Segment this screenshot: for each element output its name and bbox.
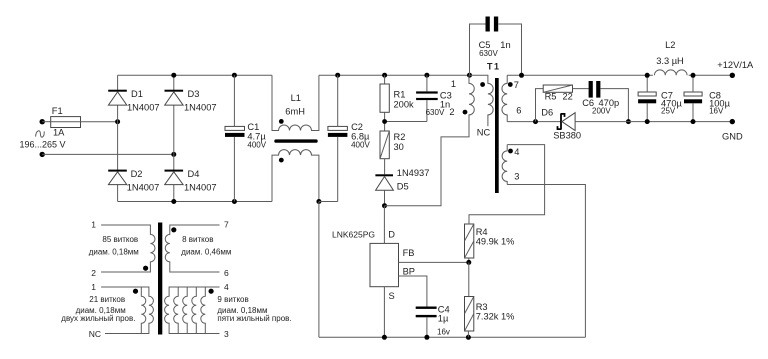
resistor R2 30 (fusible) xyxy=(380,131,405,174)
AC input terminal bottom xyxy=(40,152,45,157)
wire: secondary top line pin 7 to output xyxy=(507,74,732,76)
diode D6 SB380 schottky xyxy=(541,108,581,141)
transformer T1 auxiliary winding (NC) xyxy=(470,75,494,137)
svg-text:9 витков: 9 витков xyxy=(217,295,248,304)
svg-text:1N4007: 1N4007 xyxy=(184,103,217,113)
diode D4 1N4007 xyxy=(165,169,217,193)
svg-text:D1: D1 xyxy=(131,89,143,99)
node: bottom rail C1 xyxy=(232,199,237,204)
svg-text:NC: NC xyxy=(477,128,491,138)
svg-text:диам. 0,18мм: диам. 0,18мм xyxy=(89,248,139,257)
svg-text:пяти жильный пров.: пяти жильный пров. xyxy=(217,314,291,323)
node: top rail D3 xyxy=(171,73,176,78)
svg-text:6: 6 xyxy=(224,268,229,278)
svg-text:400V: 400V xyxy=(247,140,266,149)
svg-text:8 витков: 8 витков xyxy=(182,235,213,244)
node: C8 bottom xyxy=(691,119,696,124)
capacitor C1 4.7u 400V xyxy=(225,75,267,201)
wire: L1 bottom junction to C2 bottom xyxy=(319,201,338,203)
fuse F1 xyxy=(51,106,81,138)
label: 196...265 V xyxy=(20,140,66,150)
svg-text:R3: R3 xyxy=(476,302,488,312)
resistor R1 200k xyxy=(380,75,414,131)
AC input terminal top xyxy=(40,119,45,124)
transformer T1 label xyxy=(487,62,501,72)
svg-text:+12V/1A: +12V/1A xyxy=(717,60,754,70)
node: L2 in / C7 top xyxy=(645,73,650,78)
svg-text:диам. 0,46мм: диам. 0,46мм xyxy=(181,248,231,257)
output terminal +12V xyxy=(717,60,754,78)
svg-text:1N4007: 1N4007 xyxy=(127,103,160,113)
svg-text:SB380: SB380 xyxy=(553,131,581,141)
node: L2 out / C8 top xyxy=(691,73,696,78)
svg-text:L2: L2 xyxy=(665,40,675,50)
wire: AC top terminal to fuse xyxy=(42,121,51,123)
svg-text:L1: L1 xyxy=(291,93,301,103)
svg-text:22: 22 xyxy=(563,92,573,102)
node: C7 bottom xyxy=(645,119,650,124)
svg-text:D4: D4 xyxy=(188,169,200,179)
svg-text:D6: D6 xyxy=(541,108,553,118)
wire: fuse to bridge node xyxy=(81,121,118,123)
svg-text:двух жильный пров.: двух жильный пров. xyxy=(61,314,135,323)
svg-text:NC: NC xyxy=(89,329,101,339)
IC U1 LNK625PG xyxy=(332,206,415,301)
diode D3 1N4007 xyxy=(165,89,217,112)
node: AC bottom/bridge junction xyxy=(171,152,176,157)
svg-text:FB: FB xyxy=(403,248,415,258)
svg-text:1: 1 xyxy=(451,79,456,89)
capacitor C3 1n 630V xyxy=(385,75,452,121)
svg-text:1µ: 1µ xyxy=(438,314,449,324)
wire: bridge right vertical xyxy=(173,75,175,201)
svg-text:1A: 1A xyxy=(53,128,65,138)
svg-text:7: 7 xyxy=(224,220,229,230)
node: source rail C4 xyxy=(424,335,429,340)
node: FB divider junction xyxy=(466,260,471,265)
svg-text:D2: D2 xyxy=(131,169,143,179)
svg-text:3: 3 xyxy=(514,172,519,182)
source rail (primary ground) xyxy=(319,336,586,338)
svg-text:1: 1 xyxy=(91,282,96,292)
svg-text:LNK625PG: LNK625PG xyxy=(332,230,375,240)
svg-text:GND: GND xyxy=(722,132,743,142)
diode D2 1N4007 xyxy=(108,169,159,193)
wire: bridge left vertical xyxy=(117,75,119,201)
node: D5/clamp/drain junction xyxy=(382,203,387,208)
svg-text:7: 7 xyxy=(514,80,519,90)
wire: AC bottom to bridge node xyxy=(42,153,174,155)
wire: top rail L1 to T1 xyxy=(319,74,470,76)
svg-text:R2: R2 xyxy=(394,132,406,142)
capacitor C7 470u 25V xyxy=(638,75,682,121)
wire: D6 to output gnd line xyxy=(575,121,732,123)
svg-text:D: D xyxy=(388,230,395,240)
transformer T1 bias winding pins 4-3 xyxy=(502,145,519,185)
detail winding 85 turns pins 1-2 xyxy=(89,220,155,279)
svg-text:2: 2 xyxy=(91,268,96,278)
svg-text:4: 4 xyxy=(224,282,229,292)
svg-text:85 витков: 85 витков xyxy=(102,235,138,244)
svg-text:T1: T1 xyxy=(487,62,501,72)
svg-text:6mH: 6mH xyxy=(285,107,305,117)
svg-text:4: 4 xyxy=(514,147,519,157)
svg-text:BP: BP xyxy=(403,266,415,276)
svg-text:F1: F1 xyxy=(52,106,63,116)
node: top rail C2 xyxy=(335,73,340,78)
wire: pin 4 to R4 xyxy=(469,145,545,224)
svg-text:630V: 630V xyxy=(479,49,498,58)
capacitor C6 470p 200V xyxy=(582,81,628,122)
resistor R5 22 (fusible) xyxy=(536,85,589,122)
svg-text:1N4007: 1N4007 xyxy=(127,183,160,193)
svg-text:D3: D3 xyxy=(188,89,200,99)
node: top rail C3 xyxy=(424,73,429,78)
svg-text:630V: 630V xyxy=(426,108,445,117)
wire: FB pin to divider xyxy=(399,261,469,263)
node: source rail R3 xyxy=(466,335,471,340)
svg-text:1n: 1n xyxy=(500,40,510,50)
wire: secondary bottom line pin 6 to D6 xyxy=(507,121,561,123)
node: C5 right on pin 7 line xyxy=(519,73,524,78)
svg-text:21 витков: 21 витков xyxy=(89,295,125,304)
svg-text:7.32k 1%: 7.32k 1% xyxy=(476,311,515,321)
inductor L2 3.3uH xyxy=(653,40,689,76)
resistor R3 7.32k 1% xyxy=(465,262,515,337)
node: C5 left junction on pin1 line xyxy=(467,73,472,78)
node: source rail S xyxy=(382,335,387,340)
resistor R4 49.9k 1% xyxy=(465,215,515,263)
svg-text:3: 3 xyxy=(224,329,229,339)
svg-text:1N4007: 1N4007 xyxy=(184,183,217,193)
detail core bar xyxy=(158,223,162,335)
svg-text:16V: 16V xyxy=(709,107,724,116)
detail winding 9 turns pins 4-3 (five strands) xyxy=(165,282,292,339)
svg-text:200V: 200V xyxy=(592,106,611,115)
wire: L1 bottom junction down to source rail xyxy=(318,202,320,338)
svg-text:25V: 25V xyxy=(661,107,676,116)
svg-text:49.9k 1%: 49.9k 1% xyxy=(476,236,515,246)
capacitor C2 6.8u 400V xyxy=(328,75,371,201)
wire: junction to T1 pin 2 xyxy=(385,117,470,206)
svg-text:1: 1 xyxy=(91,220,96,230)
svg-text:30: 30 xyxy=(394,142,404,152)
node: R1/R2/C3 junction xyxy=(382,119,387,124)
transformer T1 secondary winding pins 7-6 xyxy=(502,75,522,121)
node: C6 return on output line xyxy=(626,119,631,124)
node: L1 out bottom junction xyxy=(316,199,321,204)
capacitor C8 100u 16V xyxy=(684,75,731,121)
svg-text:R1: R1 xyxy=(394,89,406,99)
svg-text:D5: D5 xyxy=(397,182,409,192)
svg-text:2: 2 xyxy=(449,107,454,117)
node: fuse/bridge junction xyxy=(115,119,120,124)
choke L1 core bar xyxy=(276,139,316,142)
svg-text:S: S xyxy=(389,291,395,301)
wire: BP pin to C4 xyxy=(399,276,427,307)
wire: top rail bridge to L1 xyxy=(118,74,272,76)
svg-text:R4: R4 xyxy=(476,227,488,237)
svg-text:6: 6 xyxy=(516,106,521,116)
node: top rail R1 xyxy=(382,73,387,78)
svg-text:16v: 16v xyxy=(437,327,450,336)
node: bottom rail D4 xyxy=(171,199,176,204)
detail winding 8 turns pins 7-6 xyxy=(165,220,231,279)
svg-text:400V: 400V xyxy=(351,140,370,149)
wire: pin 3 to source rail xyxy=(507,185,585,338)
capacitor C4 1u 16v xyxy=(416,304,450,337)
svg-text:200k: 200k xyxy=(394,99,415,109)
diode D5 1N4937 xyxy=(375,168,429,206)
output terminal GND xyxy=(722,119,743,142)
transformer T1 core xyxy=(495,78,499,193)
node: R5 junction on pin 6 line xyxy=(533,119,538,124)
choke L1 bottom winding xyxy=(272,150,319,202)
detail winding 21 turns pins 1-NC (two strands) xyxy=(61,282,153,339)
capacitor C5 1n 630V xyxy=(470,17,522,76)
wire: S pin to source rail xyxy=(383,287,385,338)
AC source sine symbol xyxy=(36,131,45,137)
svg-text:196...265 V: 196...265 V xyxy=(20,140,66,150)
transformer T1 primary winding pins 1-2 xyxy=(449,75,474,117)
wire: bottom rail bridge to L1 xyxy=(118,201,272,203)
choke L1 6mH top winding xyxy=(272,75,319,130)
diode D1 1N4007 xyxy=(108,89,159,112)
svg-text:R5: R5 xyxy=(545,92,557,102)
svg-text:3.3 µH: 3.3 µH xyxy=(656,56,684,66)
node: top rail C1 xyxy=(232,73,237,78)
svg-text:1N4937: 1N4937 xyxy=(397,168,430,178)
